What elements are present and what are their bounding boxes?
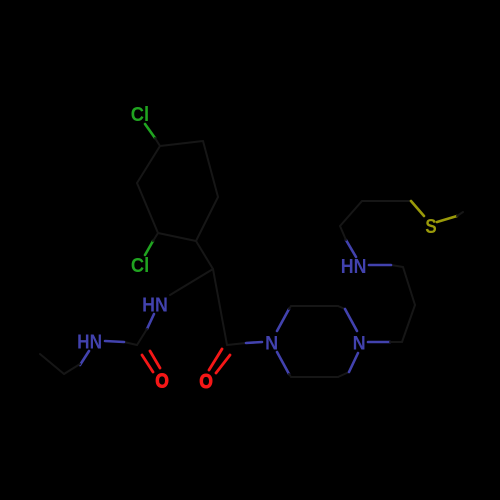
- svg-text:O: O: [199, 370, 212, 393]
- benzene ring bond V5-V6: [137, 183, 158, 233]
- bond S-CH3 gray tail: [457, 212, 463, 216]
- svg-text:O: O: [155, 369, 168, 392]
- svg-text:HN: HN: [142, 295, 168, 317]
- benzene ring bond V1-V2: [160, 141, 203, 146]
- bond NH2-ethyl CH2 blue half: [80, 351, 89, 365]
- bond C8-C9: [403, 267, 415, 305]
- svg-text:N: N: [265, 332, 278, 354]
- bond C10-C11: [340, 201, 362, 226]
- benzene ring bond V3-V4: [196, 197, 218, 241]
- piperazine bond C5p-N4 gray tip: [338, 372, 349, 377]
- bond S-CH3 olive: [437, 216, 457, 222]
- benzene ring bond V6-V1: [137, 146, 160, 183]
- svg-text:HN: HN: [77, 330, 102, 353]
- bond alpha CH to carbonyl C2: [213, 269, 227, 345]
- bond N4-C7 gray half: [390, 341, 402, 343]
- bond C2-N1pip gray half: [227, 343, 246, 345]
- piperazine bond N1-C2p gray tip: [289, 306, 291, 309]
- bond Cl1-ring gray half: [155, 138, 160, 146]
- amide C2=O2 double bond red line a: [209, 349, 222, 370]
- benzene ring bond V2-V3: [203, 141, 218, 197]
- piperazine bond C3p-N4 gray tip: [338, 306, 345, 309]
- bond ethyl CH2-CH3: [40, 354, 64, 374]
- piperazine bond N1-C2p blue: [277, 309, 289, 331]
- bond NH3-C10 blue half: [346, 240, 356, 257]
- bond C2-N1pip blue half: [246, 342, 262, 343]
- piperazine bond C3p-N4 blue: [345, 309, 357, 331]
- piperazine bond C2p-C3p: [291, 305, 338, 307]
- svg-text:Cl: Cl: [131, 105, 149, 127]
- bond Cl2-ring gray half: [153, 233, 158, 241]
- bond Cl2-ring green half: [145, 241, 153, 255]
- bond C1-NH2 blue half: [105, 341, 124, 342]
- piperazine bond N1-C6p blue: [277, 352, 289, 374]
- bond NH1-C1 gray half: [137, 329, 147, 345]
- benzene ring bond V4-V5: [158, 233, 196, 241]
- bond C9-NH3 blue half: [369, 264, 391, 267]
- piperazine bond C5p-N4 blue: [349, 353, 358, 372]
- bond NH2-ethyl CH2 gray half: [64, 364, 80, 374]
- bond C1-NH2 gray half: [124, 342, 137, 345]
- svg-text:Cl: Cl: [131, 256, 149, 278]
- piperazine bond C6p-C5p: [291, 376, 338, 378]
- bond NH1-C1 blue half: [147, 314, 154, 329]
- bond C7-C8: [402, 305, 415, 342]
- bond C9-NH3 gray half: [391, 265, 403, 267]
- bond Cl1-ring green half: [145, 124, 155, 138]
- bond ring-V4 to alpha CH: [196, 241, 213, 269]
- svg-text:N: N: [353, 332, 366, 354]
- bond C12-S olive: [411, 201, 424, 216]
- bond NH3-C10 gray half: [340, 226, 346, 240]
- urea C1=O1 double bond red line b: [150, 351, 160, 368]
- svg-text:HN: HN: [341, 256, 367, 278]
- bond N4-C7 blue half: [368, 341, 390, 344]
- urea C1=O1 double bond red line a: [142, 355, 153, 372]
- svg-text:S: S: [425, 215, 436, 238]
- bond alpha CH to NH1: [170, 269, 213, 295]
- bond C11-C12: [362, 200, 411, 202]
- amide C2=O2 double bond red line b: [216, 355, 230, 373]
- piperazine bond N1-C6p gray tip: [289, 374, 291, 377]
